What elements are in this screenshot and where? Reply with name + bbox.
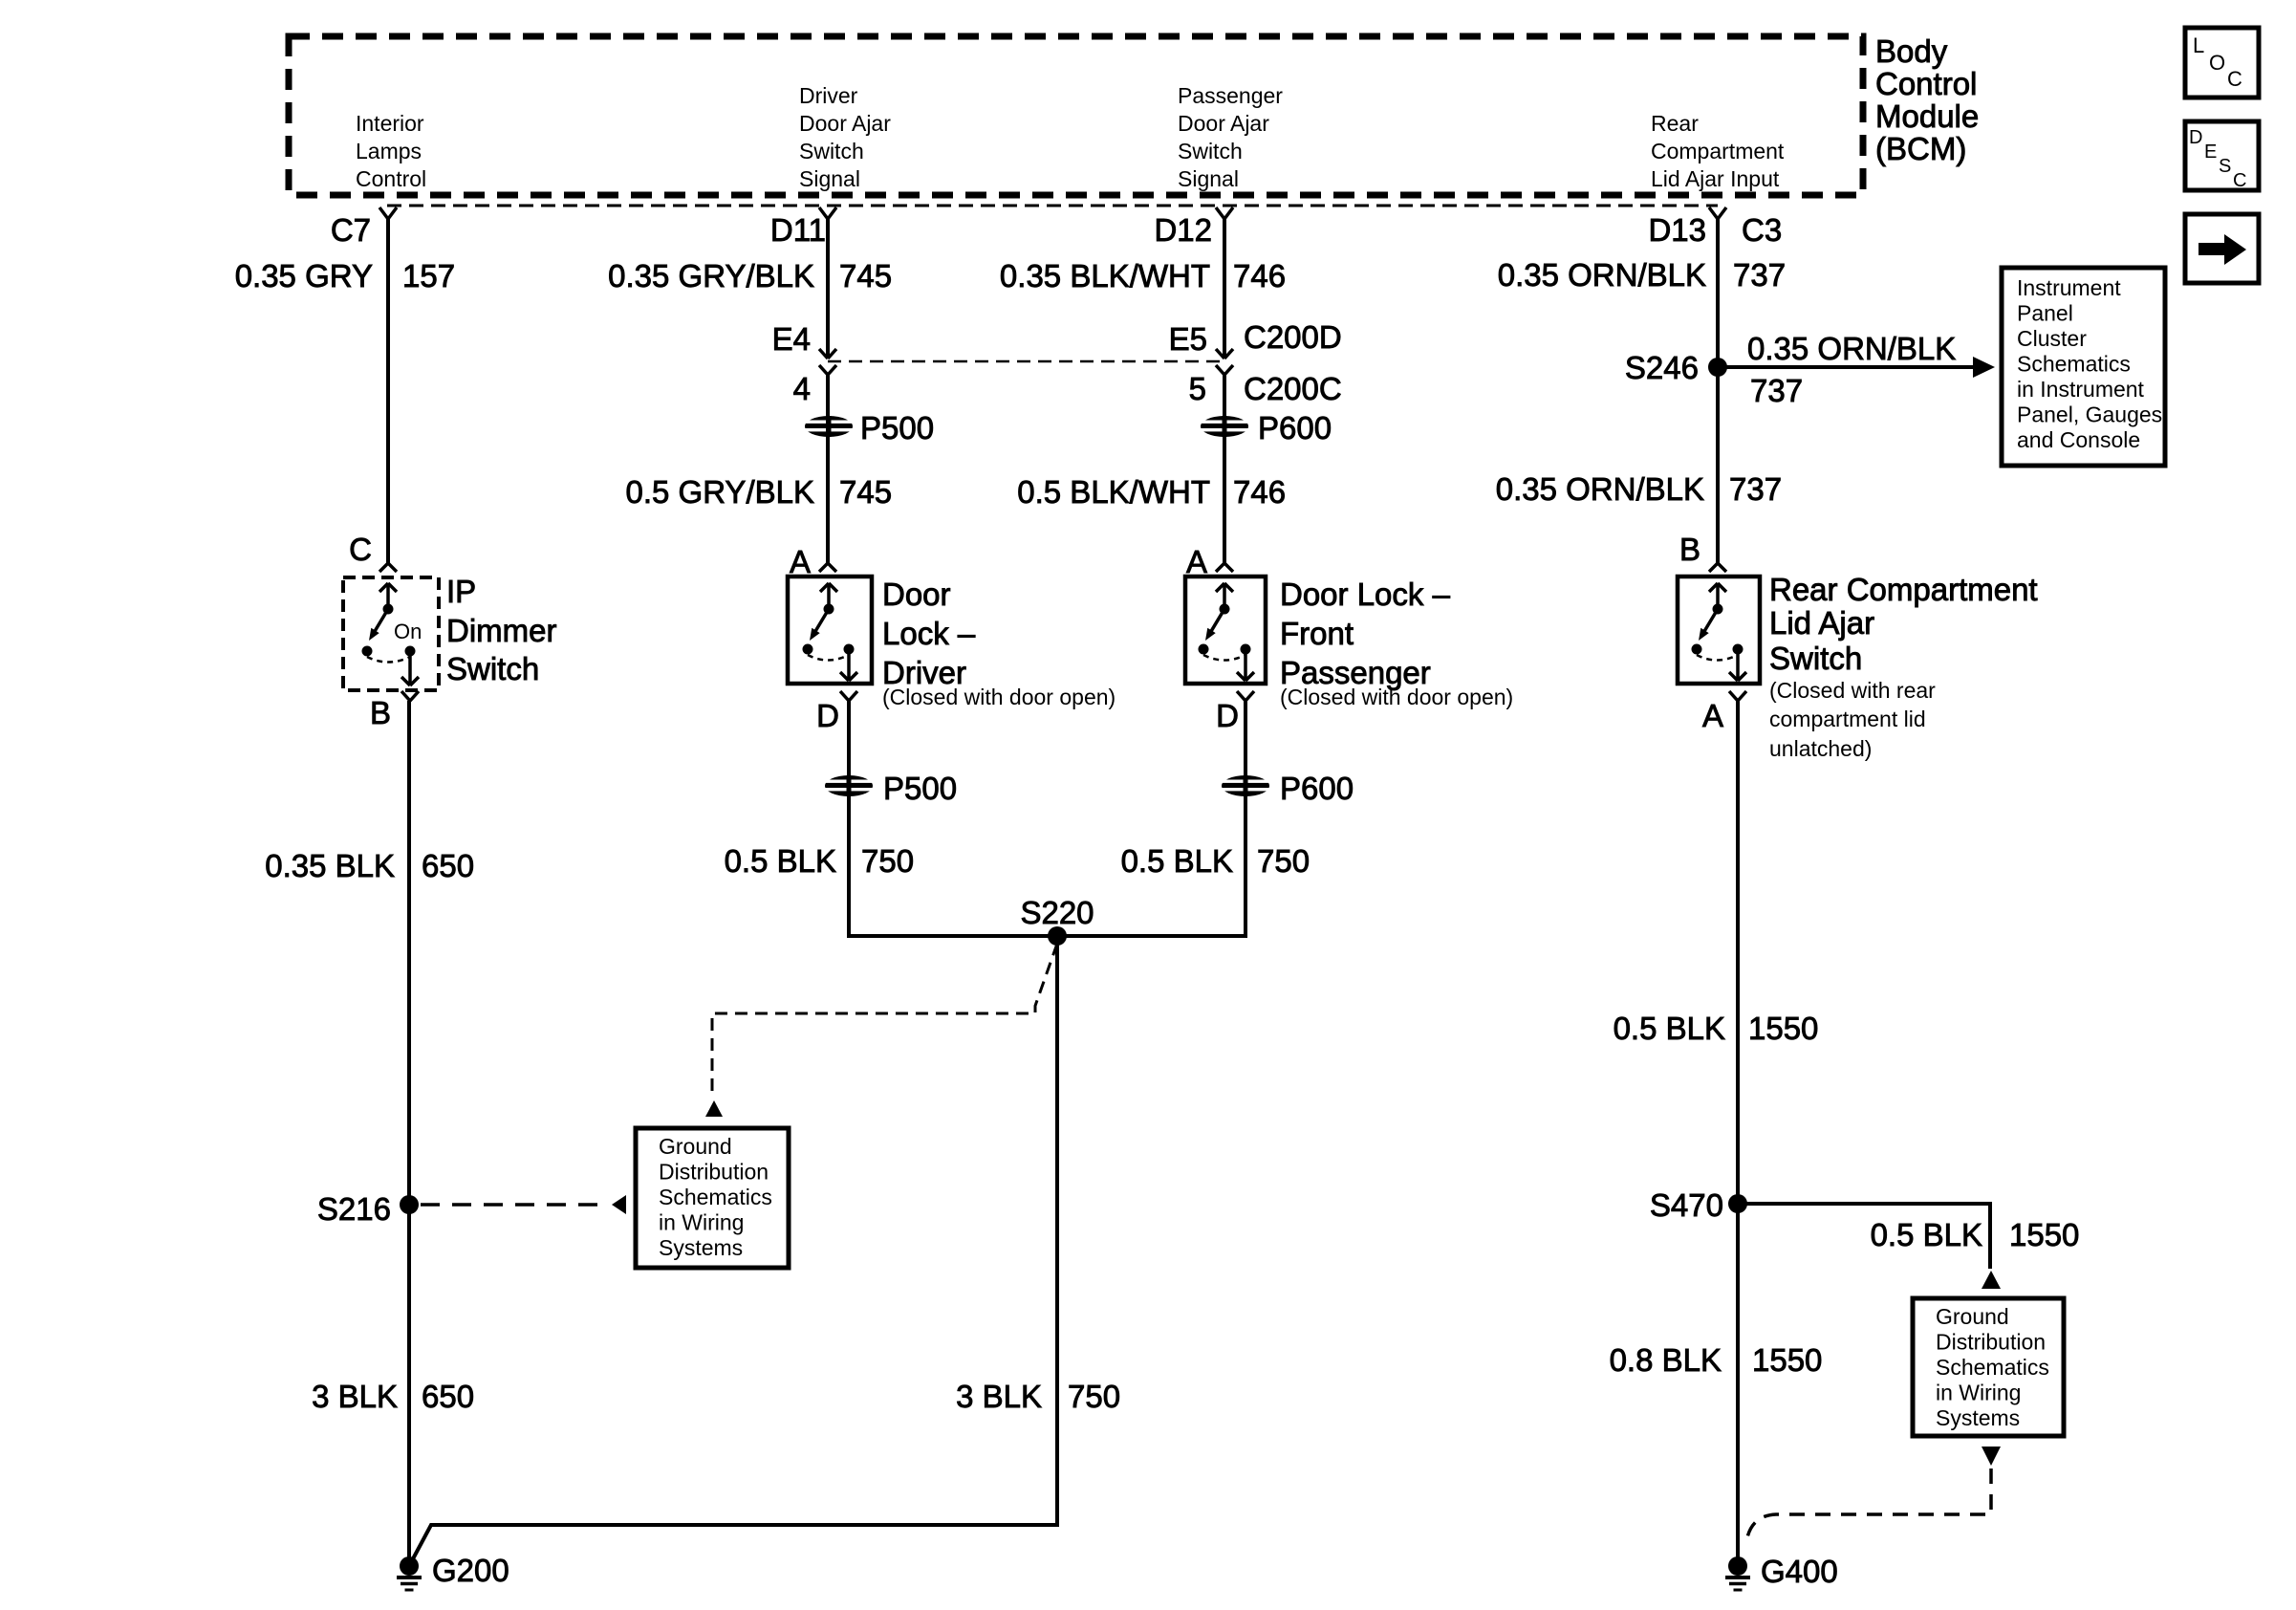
wire S246 to instrument panel cluster bbox=[1718, 365, 1975, 369]
wire 5 to P600 bbox=[1223, 375, 1226, 440]
svg-text:737: 737 bbox=[1750, 373, 1803, 408]
dashed reference line S220 to ground distribution box bbox=[712, 944, 1057, 1099]
ground G200 bbox=[397, 1556, 422, 1590]
svg-text:Instrument: Instrument bbox=[2017, 275, 2121, 300]
svg-text:D13: D13 bbox=[1648, 212, 1706, 248]
svg-text:On: On bbox=[394, 620, 422, 643]
BCM label: Driver Door Ajar Switch Signal bbox=[799, 83, 891, 191]
svg-text:P500: P500 bbox=[883, 771, 957, 806]
svg-text:750: 750 bbox=[1068, 1379, 1120, 1414]
fork below door lock passenger bbox=[1237, 691, 1254, 701]
svg-text:Body: Body bbox=[1875, 33, 1948, 69]
wire label 0.35 GRY/BLK 745 bbox=[608, 258, 892, 294]
wire label 0.35 BLK/WHT 746 bbox=[1000, 258, 1286, 294]
svg-text:A: A bbox=[1702, 698, 1723, 733]
wire P600 lower to S220 bbox=[1055, 794, 1245, 936]
svg-text:Signal: Signal bbox=[1178, 166, 1239, 191]
svg-text:3 BLK: 3 BLK bbox=[956, 1379, 1042, 1414]
svg-text:P600: P600 bbox=[1258, 410, 1332, 446]
wire 4 to P500 bbox=[826, 375, 830, 440]
svg-text:157: 157 bbox=[402, 258, 455, 294]
Rear Compartment Lid Ajar Switch box bbox=[1678, 577, 1760, 684]
pin D12 fork bbox=[1216, 207, 1233, 219]
svg-text:Signal: Signal bbox=[799, 166, 860, 191]
svg-text:(Closed with rear: (Closed with rear bbox=[1769, 678, 1936, 703]
svg-text:B: B bbox=[1679, 532, 1700, 567]
IP Dimmer Switch dashed box bbox=[343, 577, 439, 690]
svg-text:C: C bbox=[349, 532, 372, 567]
svg-text:0.35 GRY/BLK: 0.35 GRY/BLK bbox=[608, 258, 814, 294]
svg-text:unlatched): unlatched) bbox=[1769, 736, 1872, 761]
fork below IP dimmer switch bbox=[401, 691, 419, 701]
connector pin 5 fork bbox=[1216, 365, 1233, 375]
svg-text:in Wiring: in Wiring bbox=[1936, 1381, 2021, 1405]
svg-text:and Console: and Console bbox=[2017, 427, 2140, 452]
svg-text:0.5 GRY/BLK: 0.5 GRY/BLK bbox=[625, 474, 814, 510]
svg-text:A: A bbox=[1186, 544, 1207, 579]
svg-text:Ground: Ground bbox=[1936, 1304, 2009, 1329]
svg-text:(BCM): (BCM) bbox=[1875, 131, 1966, 166]
wire D13/C3 to S246 bbox=[1716, 219, 1720, 563]
Door Lock Driver label bbox=[882, 577, 1116, 709]
wire D11 to E4 bbox=[826, 219, 830, 358]
svg-text:0.35 ORN/BLK: 0.35 ORN/BLK bbox=[1498, 257, 1706, 293]
splice S216 bbox=[400, 1195, 419, 1214]
svg-text:S470: S470 bbox=[1650, 1187, 1723, 1223]
wire label 0.5 GRY/BLK 745 bbox=[625, 474, 892, 510]
wire D12 to E5 bbox=[1223, 219, 1226, 358]
svg-text:Control: Control bbox=[1875, 66, 1977, 101]
svg-text:C200C: C200C bbox=[1244, 371, 1342, 406]
wire rear switch A to G400 bbox=[1736, 701, 1740, 1566]
svg-text:Schematics: Schematics bbox=[1936, 1355, 2049, 1380]
Rear Compartment Lid Ajar Switch label bbox=[1769, 572, 2038, 761]
IP Dimmer Switch label bbox=[446, 574, 556, 686]
Door Lock Front Passenger switch box bbox=[1185, 577, 1266, 684]
connector C200 E5 arrow bbox=[1216, 349, 1233, 359]
svg-text:L: L bbox=[2193, 33, 2204, 57]
wire P500 lower to S220 bbox=[849, 794, 1055, 936]
grommet P600 lower bbox=[1222, 775, 1269, 796]
grommet P500 upper bbox=[805, 416, 853, 437]
grommet P600 upper bbox=[1201, 416, 1248, 437]
connector C200 dashed boundary bbox=[828, 360, 1224, 363]
wire label 0.5 BLK/WHT 746 bbox=[1017, 474, 1286, 510]
connector pin 4 fork bbox=[819, 365, 836, 375]
svg-text:746: 746 bbox=[1233, 474, 1286, 510]
svg-text:0.35 BLK/WHT: 0.35 BLK/WHT bbox=[1000, 258, 1210, 294]
svg-text:A: A bbox=[790, 544, 811, 579]
splice S246 bbox=[1708, 358, 1727, 377]
svg-text:Door Lock –: Door Lock – bbox=[1280, 577, 1451, 612]
svg-text:Dimmer: Dimmer bbox=[446, 613, 556, 648]
LOC legend box bbox=[2185, 28, 2259, 98]
svg-text:C: C bbox=[2227, 67, 2242, 91]
fork below rear switch bbox=[1729, 691, 1746, 701]
svg-text:O: O bbox=[2209, 51, 2225, 75]
svg-text:650: 650 bbox=[422, 848, 474, 883]
fork above door lock driver bbox=[819, 563, 836, 572]
pin D13 fork bbox=[1709, 207, 1726, 219]
ground G400 bbox=[1725, 1556, 1750, 1590]
grommet P500 lower bbox=[825, 775, 873, 796]
svg-text:C3: C3 bbox=[1742, 212, 1782, 248]
wire label 0.5 BLK 750 (driver) bbox=[725, 843, 914, 879]
dashed reference line S216 to ground distribution box bbox=[421, 1203, 609, 1207]
Ground Distribution reference box (left) bbox=[636, 1128, 789, 1268]
legend arrow box bbox=[2185, 214, 2259, 283]
svg-text:Interior: Interior bbox=[356, 111, 424, 136]
wire label 0.35 ORN/BLK 737 (lower) bbox=[1496, 471, 1782, 507]
door lock driver switch internals bbox=[803, 583, 858, 681]
pin C7 fork bbox=[379, 207, 397, 219]
svg-text:in Instrument: in Instrument bbox=[2017, 377, 2145, 402]
wire P500 to door lock driver bbox=[826, 414, 830, 563]
wire label 0.5 BLK 750 (passenger) bbox=[1121, 843, 1310, 879]
arrowhead to instrument panel cluster bbox=[1973, 357, 1995, 378]
svg-text:Module: Module bbox=[1875, 98, 1979, 134]
svg-text:737: 737 bbox=[1729, 471, 1782, 507]
svg-text:Switch: Switch bbox=[799, 139, 864, 163]
DESC legend box bbox=[2185, 121, 2259, 191]
svg-text:C200D: C200D bbox=[1244, 319, 1342, 355]
svg-text:Switch: Switch bbox=[1178, 139, 1243, 163]
wire label 0.35 BLK 650 bbox=[265, 848, 474, 883]
svg-text:Control: Control bbox=[356, 166, 426, 191]
svg-text:D: D bbox=[2189, 127, 2202, 148]
BCM title: Body Control Module (BCM) bbox=[1875, 33, 1979, 166]
svg-text:C7: C7 bbox=[331, 212, 371, 248]
svg-text:Systems: Systems bbox=[1936, 1405, 2020, 1430]
svg-text:Front: Front bbox=[1280, 616, 1354, 651]
svg-text:D12: D12 bbox=[1154, 212, 1212, 248]
svg-text:Lid Ajar: Lid Ajar bbox=[1769, 605, 1874, 641]
svg-text:E: E bbox=[2204, 141, 2217, 163]
svg-text:750: 750 bbox=[1257, 843, 1310, 879]
svg-text:1550: 1550 bbox=[2009, 1217, 2079, 1252]
fork above rear compartment switch bbox=[1709, 563, 1726, 572]
svg-text:Driver: Driver bbox=[799, 83, 858, 108]
Body Control Module (BCM) dashed box bbox=[289, 36, 1863, 195]
wire label 3 BLK 650 bbox=[312, 1379, 474, 1414]
BCM connector face thin dashed line bbox=[387, 205, 1718, 207]
svg-text:650: 650 bbox=[422, 1379, 474, 1414]
BCM label: Passenger Door Ajar Switch Signal bbox=[1178, 83, 1283, 191]
wire label 3 BLK 750 bbox=[956, 1379, 1120, 1414]
svg-text:S216: S216 bbox=[317, 1191, 391, 1227]
svg-text:Lid Ajar Input: Lid Ajar Input bbox=[1651, 166, 1780, 191]
svg-text:0.35 GRY: 0.35 GRY bbox=[235, 258, 373, 294]
wire label 0.5 BLK 1550 bbox=[1614, 1011, 1819, 1046]
svg-text:Passenger: Passenger bbox=[1178, 83, 1283, 108]
splice S220 bbox=[1048, 926, 1067, 946]
svg-text:B: B bbox=[370, 695, 391, 730]
svg-text:0.5 BLK: 0.5 BLK bbox=[1121, 843, 1233, 879]
door lock passenger switch internals bbox=[1199, 583, 1255, 681]
svg-text:1550: 1550 bbox=[1748, 1011, 1818, 1046]
svg-text:D: D bbox=[1216, 698, 1239, 733]
IP dimmer switch internals bbox=[362, 583, 420, 685]
fork above door lock passenger bbox=[1216, 563, 1233, 572]
Door Lock Driver switch box bbox=[788, 577, 872, 684]
svg-text:Door: Door bbox=[882, 577, 951, 612]
svg-text:Door Ajar: Door Ajar bbox=[799, 111, 891, 136]
svg-text:(Closed with door open): (Closed with door open) bbox=[1280, 685, 1513, 709]
svg-text:0.35 ORN/BLK: 0.35 ORN/BLK bbox=[1747, 331, 1956, 366]
svg-text:745: 745 bbox=[839, 474, 892, 510]
svg-text:737: 737 bbox=[1733, 257, 1786, 293]
svg-text:D11: D11 bbox=[770, 212, 826, 248]
arrowhead (left) at ground distribution box bbox=[612, 1195, 626, 1214]
svg-text:Lock –: Lock – bbox=[882, 616, 976, 651]
wire door lock driver D to P500 lower bbox=[847, 701, 851, 788]
wire dimmer B to G200 bbox=[407, 701, 411, 1566]
svg-text:Schematics: Schematics bbox=[659, 1185, 772, 1209]
svg-text:compartment lid: compartment lid bbox=[1769, 707, 1926, 731]
svg-text:Panel, Gauges: Panel, Gauges bbox=[2017, 402, 2162, 427]
svg-text:Rear Compartment: Rear Compartment bbox=[1769, 572, 2038, 607]
svg-text:0.5 BLK: 0.5 BLK bbox=[1871, 1217, 1982, 1252]
wire label 0.35 GRY 157 bbox=[235, 258, 455, 294]
svg-text:C: C bbox=[2233, 170, 2246, 191]
svg-text:E4: E4 bbox=[772, 321, 811, 357]
svg-text:5: 5 bbox=[1189, 371, 1206, 406]
svg-text:D: D bbox=[816, 698, 839, 733]
svg-text:Ground: Ground bbox=[659, 1134, 732, 1159]
svg-text:4: 4 bbox=[793, 371, 811, 406]
svg-text:S220: S220 bbox=[1020, 895, 1094, 930]
svg-text:Systems: Systems bbox=[659, 1235, 743, 1260]
svg-text:E5: E5 bbox=[1169, 321, 1207, 357]
svg-text:Schematics: Schematics bbox=[2017, 352, 2131, 377]
svg-text:0.5 BLK: 0.5 BLK bbox=[725, 843, 836, 879]
wire door lock passenger D to P600 lower bbox=[1244, 701, 1247, 788]
svg-text:Panel: Panel bbox=[2017, 301, 2073, 326]
wire label 0.5 BLK 1550 (branch) bbox=[1871, 1217, 2080, 1252]
svg-text:S: S bbox=[2219, 156, 2231, 177]
rear compartment switch internals bbox=[1692, 583, 1747, 681]
svg-text:Rear: Rear bbox=[1651, 111, 1699, 136]
svg-text:S246: S246 bbox=[1625, 350, 1699, 385]
svg-text:0.5 BLK/WHT: 0.5 BLK/WHT bbox=[1017, 474, 1210, 510]
wire label 0.8 BLK 1550 bbox=[1610, 1342, 1823, 1378]
arrowhead (down) below ground distribution box right bbox=[1982, 1447, 2001, 1466]
svg-text:0.35 ORN/BLK: 0.35 ORN/BLK bbox=[1496, 471, 1704, 507]
svg-text:0.5 BLK: 0.5 BLK bbox=[1614, 1011, 1725, 1046]
svg-text:745: 745 bbox=[839, 258, 892, 294]
svg-text:G200: G200 bbox=[432, 1553, 509, 1588]
Instrument Panel Cluster reference box bbox=[2002, 268, 2165, 466]
svg-text:0.8 BLK: 0.8 BLK bbox=[1610, 1342, 1722, 1378]
svg-text:750: 750 bbox=[861, 843, 914, 879]
wire P600 to door lock passenger bbox=[1223, 414, 1226, 563]
svg-text:in Wiring: in Wiring bbox=[659, 1210, 744, 1235]
splice S470 bbox=[1728, 1194, 1747, 1213]
svg-text:Distribution: Distribution bbox=[1936, 1330, 2046, 1355]
wire C7 to IP dimmer switch bbox=[386, 219, 390, 563]
svg-text:Door Ajar: Door Ajar bbox=[1178, 111, 1269, 136]
svg-text:Distribution: Distribution bbox=[659, 1160, 769, 1185]
arrowhead (up) at ground distribution box right bbox=[1982, 1271, 2001, 1289]
svg-text:IP: IP bbox=[446, 574, 476, 609]
svg-text:746: 746 bbox=[1233, 258, 1286, 294]
wire label 0.35 ORN/BLK 737 bbox=[1498, 257, 1786, 293]
svg-text:Switch: Switch bbox=[1769, 641, 1862, 676]
svg-text:Cluster: Cluster bbox=[2017, 326, 2087, 351]
fork above IP dimmer switch bbox=[379, 563, 397, 572]
arrowhead (up) at ground distribution box bbox=[705, 1100, 723, 1117]
svg-text:1550: 1550 bbox=[1752, 1342, 1822, 1378]
svg-text:3 BLK: 3 BLK bbox=[312, 1379, 398, 1414]
pin D11 fork bbox=[819, 207, 836, 219]
svg-text:G400: G400 bbox=[1761, 1554, 1838, 1589]
wire S220 to G200 bbox=[409, 936, 1057, 1566]
fork below door lock driver bbox=[840, 691, 857, 701]
Ground Distribution reference box (right) bbox=[1913, 1298, 2064, 1436]
svg-text:Lamps: Lamps bbox=[356, 139, 422, 163]
svg-text:Compartment: Compartment bbox=[1651, 139, 1785, 163]
svg-text:P600: P600 bbox=[1280, 771, 1354, 806]
svg-text:Switch: Switch bbox=[446, 651, 539, 686]
svg-text:0.35 BLK: 0.35 BLK bbox=[265, 848, 395, 883]
BCM label: Interior Lamps Control bbox=[356, 111, 426, 191]
svg-text:(Closed with door open): (Closed with door open) bbox=[882, 685, 1116, 709]
wire S470 branch to ground distribution box bbox=[1738, 1204, 1990, 1269]
connector C200 E4 arrow bbox=[819, 349, 836, 359]
svg-text:P500: P500 bbox=[860, 410, 934, 446]
dashed reference line to G400 bbox=[1747, 1469, 1991, 1537]
BCM label: Rear Compartment Lid Ajar Input bbox=[1651, 111, 1785, 191]
Door Lock Front Passenger label bbox=[1280, 577, 1513, 709]
